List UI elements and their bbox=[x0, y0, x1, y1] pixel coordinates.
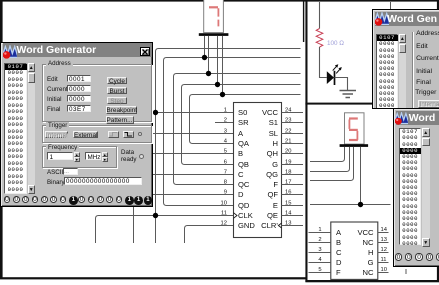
junction node bottom-right bbox=[358, 202, 363, 207]
svg-text:SL: SL bbox=[269, 129, 278, 138]
svg-text:F: F bbox=[336, 268, 341, 277]
ground symbol bbox=[340, 91, 357, 98]
window 2 Trigger label bbox=[415, 89, 436, 96]
border frame top bbox=[0, 0, 439, 2]
LED D1 bbox=[327, 64, 342, 85]
window 1 field Final bbox=[47, 106, 60, 113]
output bit circle 1 bbox=[134, 196, 143, 205]
border frame left bbox=[0, 0, 3, 279]
window 2 label Final bbox=[416, 79, 431, 86]
U4 right stub pin 13 bbox=[378, 242, 389, 244]
wire resistor to LED bbox=[320, 47, 327, 78]
svg-text:9: 9 bbox=[224, 189, 227, 195]
window 2 Internal button bbox=[418, 100, 439, 108]
output bit circle 0 bbox=[32, 196, 39, 203]
svg-text:SR: SR bbox=[238, 118, 249, 127]
window 2 address list bbox=[376, 34, 398, 110]
seven-segment display U3 (digit 5) bbox=[345, 113, 365, 144]
IC U1 74198 box bbox=[234, 103, 282, 238]
svg-text:15: 15 bbox=[285, 200, 291, 206]
wire stub below word generator 3 bbox=[405, 269, 407, 274]
wire net H3 to pin 8 QC bbox=[174, 74, 301, 185]
svg-text:QF: QF bbox=[267, 190, 278, 199]
output bit circle 0 bbox=[4, 196, 11, 203]
U1 right stub pin 18 bbox=[282, 174, 304, 176]
border frame short vertical segment bbox=[303, 0, 304, 42]
output bit circle 0 bbox=[405, 253, 412, 260]
svg-text:13: 13 bbox=[285, 220, 291, 226]
Word Generator window 2 bbox=[372, 9, 439, 109]
wire LED to ground bbox=[335, 78, 348, 91]
svg-text:B: B bbox=[238, 149, 243, 158]
U4 left stub pin 5 bbox=[309, 272, 331, 274]
svg-text:QE: QE bbox=[267, 211, 278, 220]
output bit circle 0 bbox=[426, 253, 433, 260]
border frame right bottom bbox=[305, 280, 439, 282]
wire pin 9 D bbox=[150, 194, 234, 196]
U4 right stub pin 11 bbox=[378, 262, 389, 264]
svg-text:1: 1 bbox=[318, 227, 321, 233]
junction node 5 bbox=[215, 82, 220, 87]
window 1 Data ready label bbox=[121, 150, 136, 163]
output bit circle 0 bbox=[415, 253, 422, 260]
wire horizontal net to word generator bbox=[310, 204, 391, 206]
window 3 title bar bbox=[396, 111, 439, 125]
svg-text:6: 6 bbox=[224, 159, 227, 165]
U4 left stub pin 2 bbox=[309, 242, 331, 244]
svg-text:QD: QD bbox=[238, 201, 250, 210]
svg-text:D: D bbox=[336, 258, 342, 267]
border frame right edge bbox=[437, 0, 439, 282]
svg-text:QB: QB bbox=[238, 160, 249, 169]
wire to resistor R1 bbox=[319, 2, 321, 29]
U1 right stub pin 15 bbox=[282, 205, 304, 207]
svg-text:QH: QH bbox=[267, 149, 278, 158]
window 2 label Initial bbox=[416, 68, 432, 75]
window 1 button Breakpoint bbox=[106, 106, 137, 114]
U1 right stub pin 22 bbox=[282, 133, 304, 135]
output bit circle 0 bbox=[97, 196, 104, 203]
junction node 1 bbox=[153, 110, 158, 115]
output bit circle 0 bbox=[41, 196, 48, 203]
U1 right stub pin 23 bbox=[282, 122, 304, 124]
U1 right stub pin 13 bbox=[282, 225, 304, 227]
svg-text:G: G bbox=[272, 160, 278, 169]
output bit circle 0 bbox=[22, 196, 29, 203]
svg-text:D: D bbox=[238, 190, 244, 199]
svg-text:C: C bbox=[238, 170, 244, 179]
wire pin 7 C bbox=[150, 174, 234, 176]
window 1 field Current bbox=[47, 86, 68, 93]
window 1 button External bbox=[73, 131, 98, 139]
svg-text:3: 3 bbox=[318, 247, 321, 253]
wire net H4 to pin 6 QB bbox=[182, 85, 301, 165]
output bit circle 0 bbox=[116, 196, 123, 203]
window 3 scrollbar bbox=[422, 128, 430, 245]
svg-text:3: 3 bbox=[224, 128, 227, 134]
U1 right stub pin 20 bbox=[282, 153, 304, 155]
wire pin 12 GND bbox=[185, 226, 234, 244]
svg-text:CLK: CLK bbox=[238, 211, 253, 220]
wire pin 5 B bbox=[150, 153, 234, 155]
wire U3 pin 3 bbox=[310, 147, 354, 181]
svg-text:CLR’: CLR’ bbox=[261, 221, 278, 230]
window 1 frequency value spinner bbox=[47, 152, 73, 160]
svg-text:8: 8 bbox=[224, 179, 227, 185]
wire pin 1 S0 bbox=[156, 112, 234, 114]
svg-text:19: 19 bbox=[285, 159, 291, 165]
svg-text:14: 14 bbox=[285, 210, 292, 216]
U1 right stub pin 16 bbox=[282, 194, 304, 196]
window 2 title bar bbox=[375, 12, 439, 26]
wire U3 pin 4 long vertical bbox=[360, 147, 362, 205]
svg-text:S0: S0 bbox=[238, 108, 247, 117]
window 1 title bar bbox=[3, 43, 152, 57]
window 1 button Burst bbox=[107, 87, 127, 95]
svg-text:VCC: VCC bbox=[262, 108, 279, 117]
connector bar of U3 bbox=[340, 144, 369, 147]
U1 right stub pin 24 bbox=[282, 112, 304, 114]
svg-text:C: C bbox=[336, 248, 342, 257]
wire U2 pin 1 bbox=[204, 36, 206, 58]
svg-text:23: 23 bbox=[285, 117, 291, 123]
U4 right stub pin 12 bbox=[378, 252, 389, 254]
junction node 3 bbox=[202, 55, 207, 60]
svg-text:12: 12 bbox=[381, 247, 387, 253]
svg-text:G: G bbox=[368, 258, 374, 267]
svg-text:S1: S1 bbox=[269, 118, 278, 127]
junction node 4 bbox=[206, 71, 211, 76]
wire net H5 to pin 4 QA bbox=[190, 95, 301, 144]
svg-text:5: 5 bbox=[318, 267, 321, 273]
svg-text:11: 11 bbox=[221, 210, 227, 216]
window 1 Address group bbox=[42, 64, 152, 122]
svg-text:2: 2 bbox=[224, 117, 227, 123]
U4 right stub pin 14 bbox=[378, 232, 389, 234]
window 2 label Edit bbox=[416, 43, 428, 50]
svg-text:12: 12 bbox=[221, 220, 227, 226]
U1 right stub pin 19 bbox=[282, 164, 304, 166]
IC U4 box bbox=[331, 222, 378, 279]
output bit circle 0 bbox=[60, 196, 67, 203]
window 2 group edge bbox=[412, 32, 439, 108]
svg-text:14: 14 bbox=[381, 227, 388, 233]
U1 right stub pin 14 bbox=[282, 215, 304, 217]
wire above word generator 2 bbox=[390, 2, 392, 10]
window 1 button Pattern... bbox=[106, 116, 134, 124]
wire net H2 to pin 10 QD bbox=[164, 58, 301, 206]
window 1 address list bbox=[4, 63, 27, 194]
svg-text:2: 2 bbox=[318, 237, 321, 243]
svg-text:QG: QG bbox=[266, 170, 278, 179]
svg-text:B: B bbox=[336, 238, 341, 247]
svg-text:H: H bbox=[368, 248, 373, 257]
svg-text:7: 7 bbox=[224, 169, 227, 175]
svg-text:18: 18 bbox=[285, 169, 291, 175]
svg-text:5: 5 bbox=[224, 148, 227, 154]
output bit circle 0 bbox=[436, 253, 439, 260]
svg-text:11: 11 bbox=[381, 257, 387, 263]
output bit circle 1 bbox=[125, 196, 134, 205]
svg-text:1: 1 bbox=[224, 107, 227, 113]
output bit circle 0 bbox=[395, 253, 402, 260]
window 1 Frequency group bbox=[42, 146, 117, 168]
resistor R1 zigzag bbox=[316, 29, 323, 48]
svg-text:F: F bbox=[273, 180, 278, 189]
U4 left stub pin 4 bbox=[309, 262, 331, 264]
window 1 trigger indicator bbox=[138, 132, 143, 137]
window 1 button Cycle bbox=[107, 77, 127, 85]
U4 left stub pin 3 bbox=[309, 252, 331, 254]
output bit circle 0 bbox=[50, 196, 57, 203]
window 1 Trigger group bbox=[42, 125, 152, 143]
window 1 close button bbox=[140, 47, 150, 57]
window 3 address list bbox=[399, 128, 421, 245]
svg-text:21: 21 bbox=[285, 138, 291, 144]
svg-text:QC: QC bbox=[238, 180, 250, 189]
window 1 field Initial bbox=[47, 96, 61, 103]
svg-text:22: 22 bbox=[285, 128, 291, 134]
output bit circle 1 bbox=[69, 196, 78, 205]
output bit circle 0 bbox=[13, 196, 20, 203]
output bit circle 0 bbox=[78, 196, 85, 203]
wire pin 2 SR stub bbox=[215, 122, 234, 124]
window 1 ASCII field bbox=[47, 169, 63, 176]
wire dangling from word generator bbox=[133, 206, 135, 243]
window 1 button Step bbox=[107, 97, 127, 105]
border frame vertical divider bbox=[305, 0, 307, 282]
svg-text:24: 24 bbox=[285, 107, 292, 113]
wire U3 pin 2 bbox=[310, 147, 350, 172]
svg-text:VCC: VCC bbox=[357, 228, 374, 237]
wire U3 pin 1 bbox=[310, 147, 345, 162]
svg-text:E: E bbox=[273, 201, 278, 210]
output bit circle 0 bbox=[106, 196, 113, 203]
U4 right stub pin 10 bbox=[378, 272, 389, 274]
window 1 button Internal bbox=[45, 131, 68, 139]
svg-text:GND: GND bbox=[238, 221, 255, 230]
window 1 Binary field bbox=[47, 179, 65, 186]
U1 right stub pin 21 bbox=[282, 143, 304, 145]
svg-text:17: 17 bbox=[285, 179, 291, 185]
U1 CLK wedge bbox=[234, 213, 238, 219]
svg-text:13: 13 bbox=[381, 237, 387, 243]
svg-text:20: 20 bbox=[285, 148, 291, 154]
U4 left stub pin 1 bbox=[309, 232, 331, 234]
wire U2 pin 3 bbox=[217, 36, 219, 85]
Word Generator window 1 bbox=[0, 42, 153, 207]
svg-text:NC: NC bbox=[363, 238, 374, 247]
svg-text:100 Ω: 100 Ω bbox=[327, 40, 344, 47]
seven-segment display U2 (digit 7) bbox=[204, 0, 224, 33]
output bit circle 1 bbox=[144, 196, 153, 205]
wire U2 pin 4 bbox=[222, 36, 224, 95]
wire pin 3 A bbox=[150, 133, 234, 135]
svg-text:16: 16 bbox=[285, 189, 291, 195]
window 1 field Edit bbox=[47, 76, 58, 83]
border frame right-area divider bbox=[305, 103, 439, 105]
wire U2 pin 2 bbox=[208, 36, 210, 74]
svg-text:QA: QA bbox=[238, 139, 250, 148]
border frame main bottom bbox=[0, 277, 307, 279]
window 1 edge trigger buttons bbox=[108, 131, 119, 138]
output bit circle 0 bbox=[88, 196, 95, 203]
U1 CLR wedge bbox=[278, 223, 281, 228]
window 2 label Current bbox=[416, 55, 439, 62]
window 1 MHz spinner bbox=[85, 152, 101, 160]
U1 right stub pin 17 bbox=[282, 184, 304, 186]
wire pin 11 CLK bbox=[96, 216, 234, 244]
svg-text:H: H bbox=[273, 139, 278, 148]
window 2 scrollbar bbox=[399, 34, 407, 110]
window 1 scrollbar bbox=[28, 63, 36, 194]
svg-text:NC: NC bbox=[363, 268, 374, 277]
connector bar of U2 bbox=[199, 33, 229, 36]
junction node 2 bbox=[153, 213, 158, 218]
wire net H1 (clock line to right edge) bbox=[156, 49, 301, 244]
svg-text:10: 10 bbox=[221, 200, 227, 206]
junction node 6 bbox=[220, 92, 225, 97]
svg-text:10: 10 bbox=[381, 267, 387, 273]
Word Generator window 3 bbox=[393, 108, 439, 267]
